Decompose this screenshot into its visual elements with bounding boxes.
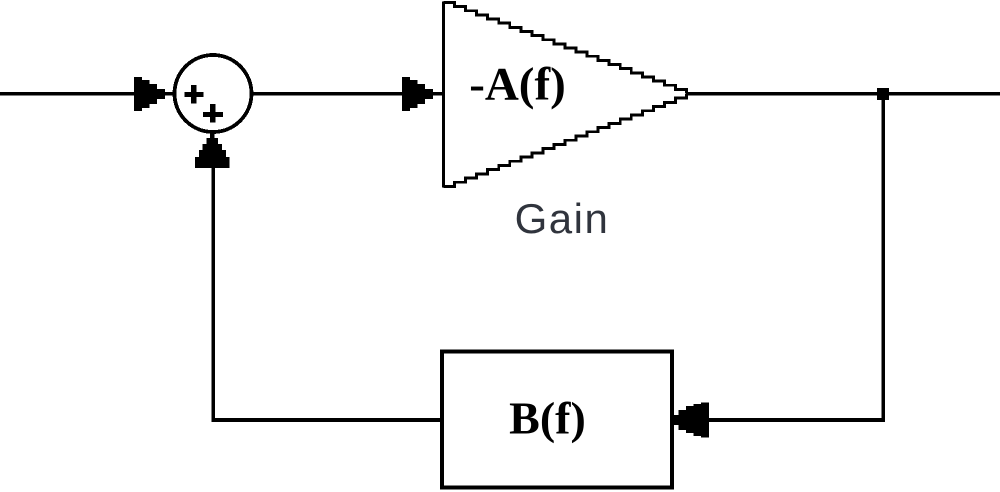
arrowhead into summing junction <box>134 77 165 111</box>
arrowhead into B(f) box <box>674 403 709 438</box>
wire: amplifier output to right edge <box>686 92 1000 96</box>
wire: feedback horizontal to B(f) box <box>680 418 885 422</box>
wire: vertical up into summing junction <box>212 160 216 422</box>
block B(f) box <box>442 352 672 488</box>
svg-text:B(f): B(f) <box>509 393 586 444</box>
wire: feedback from box to left vertical <box>213 418 441 422</box>
arrowhead up into summing junction <box>195 133 230 168</box>
wire: vertical down from junction <box>881 94 885 422</box>
node: junction dot <box>877 88 889 100</box>
svg-text:-A(f): -A(f) <box>469 59 566 111</box>
summing junction circle <box>175 55 252 132</box>
svg-text:Gain: Gain <box>515 195 610 242</box>
wire: input line from left edge to summing junction <box>0 92 174 96</box>
plus sign upper-left in summing junction <box>184 85 203 104</box>
wire: summing junction to amplifier <box>252 92 443 96</box>
arrowhead into amplifier <box>402 77 433 111</box>
plus sign lower-center in summing junction <box>203 104 223 123</box>
op-amp gain triangle <box>443 2 686 188</box>
